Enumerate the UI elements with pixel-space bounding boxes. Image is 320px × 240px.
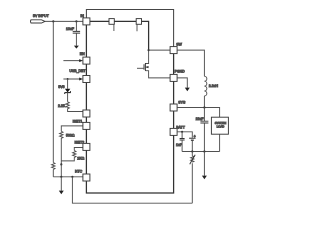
svg-text:LOAD: LOAD <box>217 125 225 129</box>
wire ISET1 to 500 ohm <box>61 126 83 131</box>
pin (left, unlabeled) box <box>83 110 90 117</box>
svg-text:2KΩ: 2KΩ <box>77 157 84 161</box>
capacitor 1uF <box>181 132 183 139</box>
svg-text:10uF: 10uF <box>66 27 74 31</box>
svg-text:5V INPUT: 5V INPUT <box>33 14 50 18</box>
resistor 2k ohm <box>61 151 76 161</box>
svg-text:+: + <box>194 135 196 139</box>
svg-text:ISET1: ISET1 <box>73 119 83 123</box>
capacitor C-IN 10uF <box>75 21 77 31</box>
ground (left bottom) <box>59 191 64 195</box>
wire NTC junction down to battery return line <box>72 177 192 203</box>
wire USB_DET input arrow <box>63 78 80 80</box>
wire left rail down to unlabeled resistor <box>52 21 54 162</box>
node: junction 22uF/gnd <box>203 150 205 152</box>
resistor (unlabeled, left rail) <box>52 163 55 170</box>
wire SW to inductor <box>177 50 204 76</box>
wire top rail IN pin over to SW pin <box>86 10 173 47</box>
zener diode 5V6 <box>67 79 69 89</box>
svg-text:EN: EN <box>80 52 85 56</box>
ground (input cap) <box>74 46 79 49</box>
svg-text:USB_DET: USB_DET <box>69 69 86 73</box>
pin ISET1 (box) <box>83 122 90 129</box>
svg-text:PGND: PGND <box>175 70 186 74</box>
pin (top edge box 2) with stub <box>136 19 141 25</box>
ground (output/battery) <box>202 176 207 180</box>
port 5V INPUT tag <box>31 20 46 23</box>
node: junction input cap <box>75 20 77 22</box>
battery BT1 <box>189 137 196 139</box>
svg-text:NTC: NTC <box>75 169 83 173</box>
node: junction 500ohm/2k bottom <box>60 163 62 165</box>
svg-text:SW: SW <box>176 42 182 46</box>
pin NTC (box) <box>83 174 90 181</box>
wire NTC net <box>53 176 83 178</box>
pin ISET2 (box) <box>83 143 90 150</box>
wire battery return line <box>182 151 220 153</box>
node: junction NTC/gnd branch <box>60 176 62 178</box>
pin PGND (box) <box>170 74 177 81</box>
resistor 2.2K <box>66 102 83 112</box>
wire ISET2 to 2k ohm <box>74 148 83 151</box>
svg-text:1uF: 1uF <box>176 143 182 147</box>
wire to master ground <box>203 152 205 176</box>
svg-text:BATT: BATT <box>176 125 186 129</box>
wire BATT to battery <box>177 132 192 138</box>
ground (PGND) <box>185 88 190 92</box>
pin IN (box) <box>83 18 90 25</box>
node: junction BATT/1uF <box>181 131 183 133</box>
svg-text:22uF: 22uF <box>196 117 204 121</box>
IC U1 outline <box>86 21 173 193</box>
inductor L1 2.2uH <box>204 76 206 96</box>
pin SYS (box) <box>170 104 177 111</box>
node: junction SYS/inductor/output cap <box>203 106 205 108</box>
svg-text:2.2K: 2.2K <box>58 104 66 108</box>
pin USB_DET (box) <box>83 76 90 83</box>
wire PGND to ground <box>177 78 187 88</box>
svg-text:500Ω: 500Ω <box>66 133 75 137</box>
wire left rail to NTC wire corner <box>52 170 54 177</box>
pin (top edge box 1) with stub <box>109 19 114 25</box>
wire EN input arrow <box>63 60 80 62</box>
node: junction NTC/battery thermistor return <box>71 176 73 178</box>
wire 500ohm line down to NTC wire <box>60 164 62 176</box>
wire SYS to system load <box>177 108 220 118</box>
node: junction battery- <box>191 150 193 152</box>
svg-text:ISET2: ISET2 <box>75 140 85 144</box>
thermistor (battery pack NTC) <box>191 152 193 156</box>
svg-text:5V6: 5V6 <box>58 85 64 89</box>
system load box <box>211 117 228 134</box>
pin BATT (box) <box>170 128 177 135</box>
wire system load to return line <box>219 134 221 151</box>
wire 5V input to IN pin <box>45 20 83 22</box>
wire inductor to SYS <box>203 96 205 108</box>
svg-text:SYS: SYS <box>178 100 186 104</box>
transistor Q1 (internal MOSFET) <box>145 50 148 63</box>
resistor 500 ohm <box>60 131 63 165</box>
node: junction zener on USB_DET wire <box>67 78 69 80</box>
capacitor C-OUT 22uF <box>203 108 205 122</box>
node: junction 5V input / left rail <box>52 20 54 22</box>
wire to left ground <box>60 177 62 191</box>
svg-text:IN: IN <box>80 14 84 18</box>
pin EN (box) <box>83 57 90 64</box>
node: junction SW / MOSFET drain <box>148 49 150 51</box>
wire SW internal <box>149 49 171 51</box>
pin SW (box) <box>170 47 177 54</box>
svg-text:2.2uH: 2.2uH <box>209 84 219 88</box>
